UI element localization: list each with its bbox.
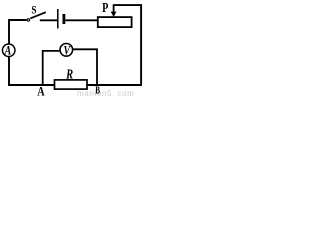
svg-text:S: S: [31, 2, 36, 16]
svg-text:P: P: [102, 0, 108, 15]
svg-text:manfen5. com: manfen5. com: [77, 89, 134, 97]
svg-text:A: A: [37, 84, 45, 98]
svg-text:B: B: [95, 85, 100, 96]
svg-text:A: A: [4, 43, 12, 58]
svg-text:R: R: [65, 68, 73, 83]
